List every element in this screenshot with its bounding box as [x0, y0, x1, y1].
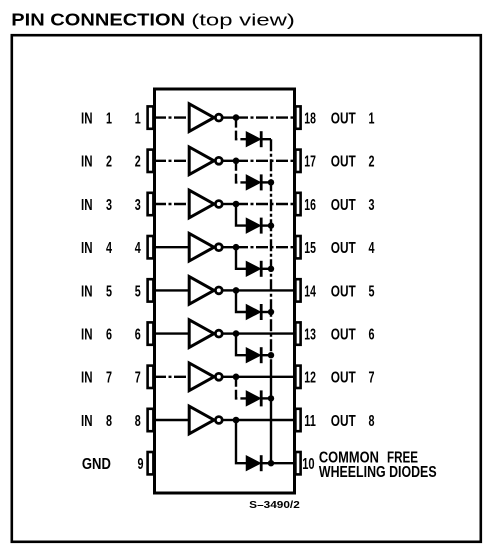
- svg-text:IN: IN: [81, 154, 93, 171]
- svg-text:IN: IN: [81, 111, 93, 128]
- svg-text:1: 1: [369, 111, 375, 128]
- svg-text:IN: IN: [81, 197, 93, 214]
- svg-text:OUT: OUT: [331, 283, 356, 300]
- svg-text:2: 2: [106, 154, 112, 171]
- svg-text:14: 14: [304, 283, 316, 300]
- svg-text:12: 12: [304, 370, 316, 387]
- svg-text:WHEELING DIODES: WHEELING DIODES: [319, 464, 437, 481]
- svg-text:5: 5: [135, 283, 141, 300]
- svg-text:OUT: OUT: [331, 370, 356, 387]
- svg-text:GND: GND: [82, 456, 111, 473]
- svg-text:2: 2: [369, 154, 375, 171]
- svg-text:3: 3: [135, 197, 141, 214]
- svg-text:8: 8: [369, 413, 375, 430]
- svg-text:OUT: OUT: [331, 111, 356, 128]
- svg-text:17: 17: [304, 154, 316, 171]
- svg-text:(top view): (top view): [191, 10, 295, 29]
- svg-text:S–3490/2: S–3490/2: [249, 500, 300, 511]
- svg-text:7: 7: [106, 370, 112, 387]
- svg-text:IN: IN: [81, 240, 93, 257]
- svg-text:18: 18: [304, 111, 316, 128]
- svg-text:OUT: OUT: [331, 240, 356, 257]
- svg-text:13: 13: [304, 327, 316, 344]
- svg-text:5: 5: [106, 283, 112, 300]
- svg-text:9: 9: [138, 456, 144, 473]
- svg-text:6: 6: [106, 327, 112, 344]
- svg-text:4: 4: [369, 240, 375, 257]
- svg-text:3: 3: [106, 197, 112, 214]
- svg-text:16: 16: [304, 197, 316, 214]
- svg-text:5: 5: [369, 283, 375, 300]
- svg-text:11: 11: [304, 413, 316, 430]
- svg-text:2: 2: [135, 154, 141, 171]
- svg-text:1: 1: [135, 111, 141, 128]
- svg-text:IN: IN: [81, 283, 93, 300]
- svg-text:OUT: OUT: [331, 154, 356, 171]
- svg-text:10: 10: [302, 456, 314, 473]
- svg-text:7: 7: [135, 370, 141, 387]
- svg-text:PIN CONNECTION: PIN CONNECTION: [11, 9, 185, 29]
- svg-text:8: 8: [106, 413, 112, 430]
- svg-text:3: 3: [369, 197, 375, 214]
- svg-text:OUT: OUT: [331, 327, 356, 344]
- svg-text:8: 8: [135, 413, 141, 430]
- svg-text:IN: IN: [81, 370, 93, 387]
- svg-text:6: 6: [135, 327, 141, 344]
- svg-text:6: 6: [369, 327, 375, 344]
- svg-text:1: 1: [106, 111, 112, 128]
- svg-text:4: 4: [135, 240, 141, 257]
- svg-text:4: 4: [106, 240, 112, 257]
- svg-text:OUT: OUT: [331, 413, 356, 430]
- svg-text:IN: IN: [81, 327, 93, 344]
- svg-text:7: 7: [369, 370, 375, 387]
- svg-text:15: 15: [304, 240, 316, 257]
- svg-text:IN: IN: [81, 413, 93, 430]
- svg-text:OUT: OUT: [331, 197, 356, 214]
